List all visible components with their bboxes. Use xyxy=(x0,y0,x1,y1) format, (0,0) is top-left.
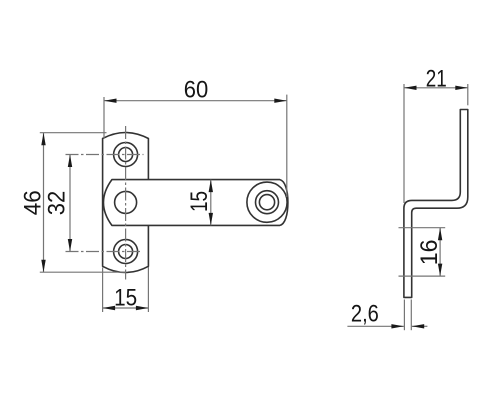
dimension 21 left extension line xyxy=(403,84,405,203)
vertical centerline of plate xyxy=(125,126,127,280)
dimension 15 arm bottom arrow xyxy=(209,213,213,226)
svg-text:2,6: 2,6 xyxy=(351,300,379,327)
dimension 60 right extension line xyxy=(286,95,288,197)
dimension 60 left extension line xyxy=(103,97,105,138)
dimension 46 bottom arrow xyxy=(41,260,45,273)
bottom hole outer circle xyxy=(114,240,138,264)
dimension 46 top arrow xyxy=(41,133,45,146)
svg-text:46: 46 xyxy=(20,190,47,215)
dimension 32 top arrow xyxy=(68,155,72,168)
dimension 2,6 right extension line xyxy=(410,300,412,331)
dimension 2,6 left extension line xyxy=(403,300,405,331)
dimension 32 bottom arrow xyxy=(68,239,72,252)
dimension 60 line xyxy=(104,100,287,102)
arm end hole inner circle xyxy=(259,195,274,210)
middle hole xyxy=(115,191,137,213)
dimension 16 top extension line xyxy=(399,227,446,229)
dimension 15 bottom right arrow xyxy=(136,306,149,310)
dimension 15 bottom right extension line xyxy=(147,267,149,312)
svg-text:16: 16 xyxy=(416,240,443,266)
top hole horizontal centerline xyxy=(66,154,144,156)
top hole inner circle xyxy=(119,148,133,162)
dimension 46 line xyxy=(43,133,45,273)
dimension 21 right extension line xyxy=(467,84,469,105)
dimension 15 bottom left arrow xyxy=(103,306,116,310)
svg-text:15: 15 xyxy=(114,285,137,312)
dimension 15 bottom line xyxy=(103,307,149,309)
bracket front view: vertical plate xyxy=(103,133,149,273)
dimension 32 line xyxy=(69,155,71,252)
bottom hole inner circle xyxy=(119,245,133,259)
dimension 46 bottom extension line xyxy=(40,271,126,273)
bottom hole horizontal centerline xyxy=(66,251,141,253)
dimension 15 arm top arrow xyxy=(209,180,213,193)
svg-text:32: 32 xyxy=(44,191,71,216)
dimension 2,6 left line xyxy=(347,325,404,327)
dimension 15 bottom left extension line xyxy=(102,268,104,313)
dimension 21 line xyxy=(404,87,468,89)
bracket front view: horizontal arm xyxy=(103,180,287,226)
dimension 2,6 right line xyxy=(412,325,428,327)
dimension 60 right arrow xyxy=(274,99,287,103)
dimension 16 bottom arrow xyxy=(438,264,442,277)
dimension 60 left arrow xyxy=(104,99,117,103)
dimension 2,6 right arrow xyxy=(412,324,425,328)
dimension 21 left arrow xyxy=(404,86,417,90)
arm end hole middle circle xyxy=(256,191,279,214)
dimension 15 arm line xyxy=(210,180,212,226)
dimension 2,6 left arrow xyxy=(391,324,404,328)
top hole outer circle xyxy=(114,143,138,167)
dimension 16 line xyxy=(439,228,441,276)
dimension 16 top arrow xyxy=(438,228,442,241)
dimension 46 top extension line xyxy=(40,132,107,134)
svg-text:60: 60 xyxy=(184,77,209,104)
svg-text:21: 21 xyxy=(426,65,447,92)
arm end hole outer circle xyxy=(247,182,287,222)
dimension 16 bottom extension line xyxy=(399,275,446,277)
svg-text:15: 15 xyxy=(186,191,213,212)
side view Z-profile xyxy=(404,110,468,298)
dimension 21 right arrow xyxy=(455,86,468,90)
